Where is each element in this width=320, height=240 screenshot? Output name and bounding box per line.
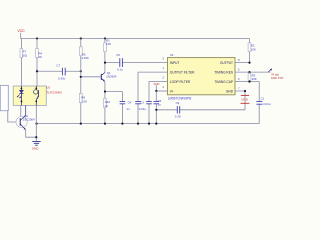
svg-text:C1: C1 bbox=[261, 97, 265, 101]
resistor R4 bbox=[36, 49, 43, 60]
svg-text:U5: U5 bbox=[46, 86, 50, 90]
svg-text:GND: GND bbox=[226, 90, 234, 94]
wire: branch x21.4 down to optocoupler pin1 bbox=[20, 39, 22, 87]
svg-text:2: 2 bbox=[162, 76, 164, 80]
svg-text:20K: 20K bbox=[252, 77, 257, 81]
transistor Q1 bbox=[101, 71, 117, 82]
svg-text:10K: 10K bbox=[106, 42, 111, 46]
capacitor C2 bbox=[146, 101, 152, 123]
pin number 4 bbox=[162, 85, 164, 89]
svg-text:1u: 1u bbox=[158, 103, 162, 107]
svg-text:2K: 2K bbox=[38, 55, 42, 59]
svg-text:C3: C3 bbox=[140, 100, 144, 104]
optocoupler U1 red label bbox=[46, 86, 62, 95]
svg-text:C5: C5 bbox=[116, 53, 120, 57]
pin number 2 bbox=[162, 76, 164, 80]
node: rail junction x37 bbox=[36, 37, 38, 39]
capacitor C4 bbox=[120, 92, 132, 124]
svg-text:C9: C9 bbox=[176, 101, 180, 105]
svg-text:1.0K: 1.0K bbox=[81, 99, 87, 103]
svg-text:6: 6 bbox=[238, 77, 240, 81]
svg-text:TLP2304D: TLP2304D bbox=[46, 91, 62, 95]
resistor R10 bbox=[104, 98, 111, 108]
svg-text:LM567CN/NOPB: LM567CN/NOPB bbox=[168, 97, 192, 101]
resistor R1 bbox=[104, 38, 112, 51]
wire: base wire y76.1 bbox=[80, 76, 101, 78]
svg-text:1n: 1n bbox=[126, 107, 130, 111]
pin number 8 bbox=[238, 58, 240, 62]
wire: V+ pin wire bbox=[155, 90, 167, 92]
capacitor C5 bbox=[116, 53, 123, 72]
LED inside optocoupler bbox=[17, 86, 24, 105]
svg-text:V+: V+ bbox=[170, 90, 174, 94]
capacitor C9 bbox=[175, 101, 181, 119]
wire: divider branch x80.8 rail to bottom rail bbox=[80, 39, 82, 124]
node: rail junction x80.8 bbox=[80, 37, 82, 39]
svg-text:GND: GND bbox=[32, 146, 40, 150]
power VDD (top-left) bbox=[17, 29, 25, 39]
pin number 3 bbox=[162, 57, 164, 61]
svg-text:2SC2004: 2SC2004 bbox=[23, 117, 35, 121]
pin number 1 bbox=[162, 66, 164, 70]
wire: opto cathode pin down bbox=[20, 105, 22, 116]
svg-text:U3: U3 bbox=[170, 53, 174, 57]
svg-text:0.33u: 0.33u bbox=[58, 76, 66, 80]
wire: bottom rail bbox=[35, 123, 259, 125]
wire: TIMING CAP row y81.6 bbox=[235, 81, 259, 102]
wire: Q2 emitter runout bbox=[26, 130, 38, 138]
wire: GND pin to ground return bbox=[235, 90, 246, 110]
ground (bottom-left) bbox=[32, 141, 41, 150]
svg-text:2N3904: 2N3904 bbox=[106, 74, 117, 78]
resistor R3 (timing) bbox=[248, 72, 257, 82]
resistor R2 bbox=[248, 43, 256, 52]
pin number 5 bbox=[238, 67, 240, 71]
wire: INPUT coupling row y62.6 bbox=[104, 62, 168, 64]
wire: TIMING RES row y72.1 bbox=[235, 71, 271, 73]
wire: branch x37 down to optocoupler pin2 bbox=[36, 39, 38, 87]
power GND (IC pin 7 flag) bbox=[241, 95, 250, 103]
svg-text:8: 8 bbox=[238, 58, 240, 62]
capacitor C1 bbox=[256, 97, 270, 124]
resistor R8 bbox=[79, 93, 87, 103]
transistor Q2 bbox=[16, 105, 35, 129]
resistor R7 bbox=[20, 49, 28, 58]
svg-text:INPUT: INPUT bbox=[170, 61, 180, 65]
svg-text:0.39: 0.39 bbox=[175, 114, 181, 118]
wire: OUTPUT FILTER to C3 bbox=[138, 72, 168, 101]
pin number 7 bbox=[238, 86, 240, 90]
svg-text:TIMING RES: TIMING RES bbox=[214, 71, 233, 75]
capacitor C6 bbox=[154, 91, 162, 124]
svg-text:3: 3 bbox=[162, 57, 164, 61]
wire: top VDD rail bbox=[21, 38, 250, 40]
svg-text:4: 4 bbox=[162, 85, 164, 89]
wire: emitter bypass row y91.5 bbox=[104, 90, 123, 92]
wire: LOOP FILTER to C2 bbox=[149, 82, 168, 102]
svg-text:7: 7 bbox=[238, 86, 240, 90]
node: tuning arrow at timing res end bbox=[268, 69, 284, 80]
svg-text:GND: GND bbox=[241, 97, 249, 101]
svg-text:10Ω: 10Ω bbox=[22, 54, 28, 58]
phototransistor inside optocoupler bbox=[34, 86, 39, 105]
wire: collector branch x105 bbox=[104, 39, 106, 73]
wire: ground return row y109.8 bbox=[155, 109, 245, 111]
svg-text:5: 5 bbox=[238, 67, 240, 71]
node: rail junction x105 bbox=[104, 37, 106, 39]
svg-text:OUTPUT: OUTPUT bbox=[220, 61, 233, 65]
pin number 6 bbox=[238, 77, 240, 81]
IC U3 LM567 bbox=[168, 53, 236, 101]
svg-text:C7: C7 bbox=[56, 64, 60, 68]
svg-text:10K: 10K bbox=[251, 47, 256, 51]
svg-text:C4: C4 bbox=[128, 101, 132, 105]
svg-text:0.01u: 0.01u bbox=[263, 102, 271, 106]
capacitor C7 bbox=[56, 64, 65, 81]
svg-text:1: 1 bbox=[162, 66, 164, 70]
wire: OUTPUT pin to R2 bbox=[235, 39, 251, 64]
svg-text:R10: R10 bbox=[105, 100, 111, 104]
svg-text:100K POT: 100K POT bbox=[271, 76, 284, 80]
svg-text:VDD: VDD bbox=[17, 29, 25, 33]
connector J1 (left edge) bbox=[0, 85, 8, 110]
power VDD (IC V+) bbox=[153, 82, 159, 91]
svg-text:LOOP FILTER: LOOP FILTER bbox=[170, 80, 191, 84]
wire: emitter to bottom rail x105 bbox=[104, 81, 106, 123]
wire: opto emitter pin down to ground branch bbox=[35, 105, 37, 141]
svg-text:0.1u: 0.1u bbox=[117, 68, 123, 72]
svg-text:0.01u: 0.01u bbox=[139, 107, 147, 111]
wire: C7 coupling row y71.25 bbox=[36, 70, 82, 72]
resistor R5 bbox=[79, 47, 89, 60]
optocoupler U1 box bbox=[13, 86, 46, 105]
svg-text:TIMING CAP: TIMING CAP bbox=[214, 80, 233, 84]
capacitor C3 bbox=[135, 100, 146, 123]
wire: connector to Q2 base bbox=[8, 111, 16, 122]
svg-text:OUTPUT FILTER: OUTPUT FILTER bbox=[170, 71, 195, 75]
svg-text:4.02K: 4.02K bbox=[81, 56, 89, 60]
svg-text:1K: 1K bbox=[105, 104, 109, 108]
